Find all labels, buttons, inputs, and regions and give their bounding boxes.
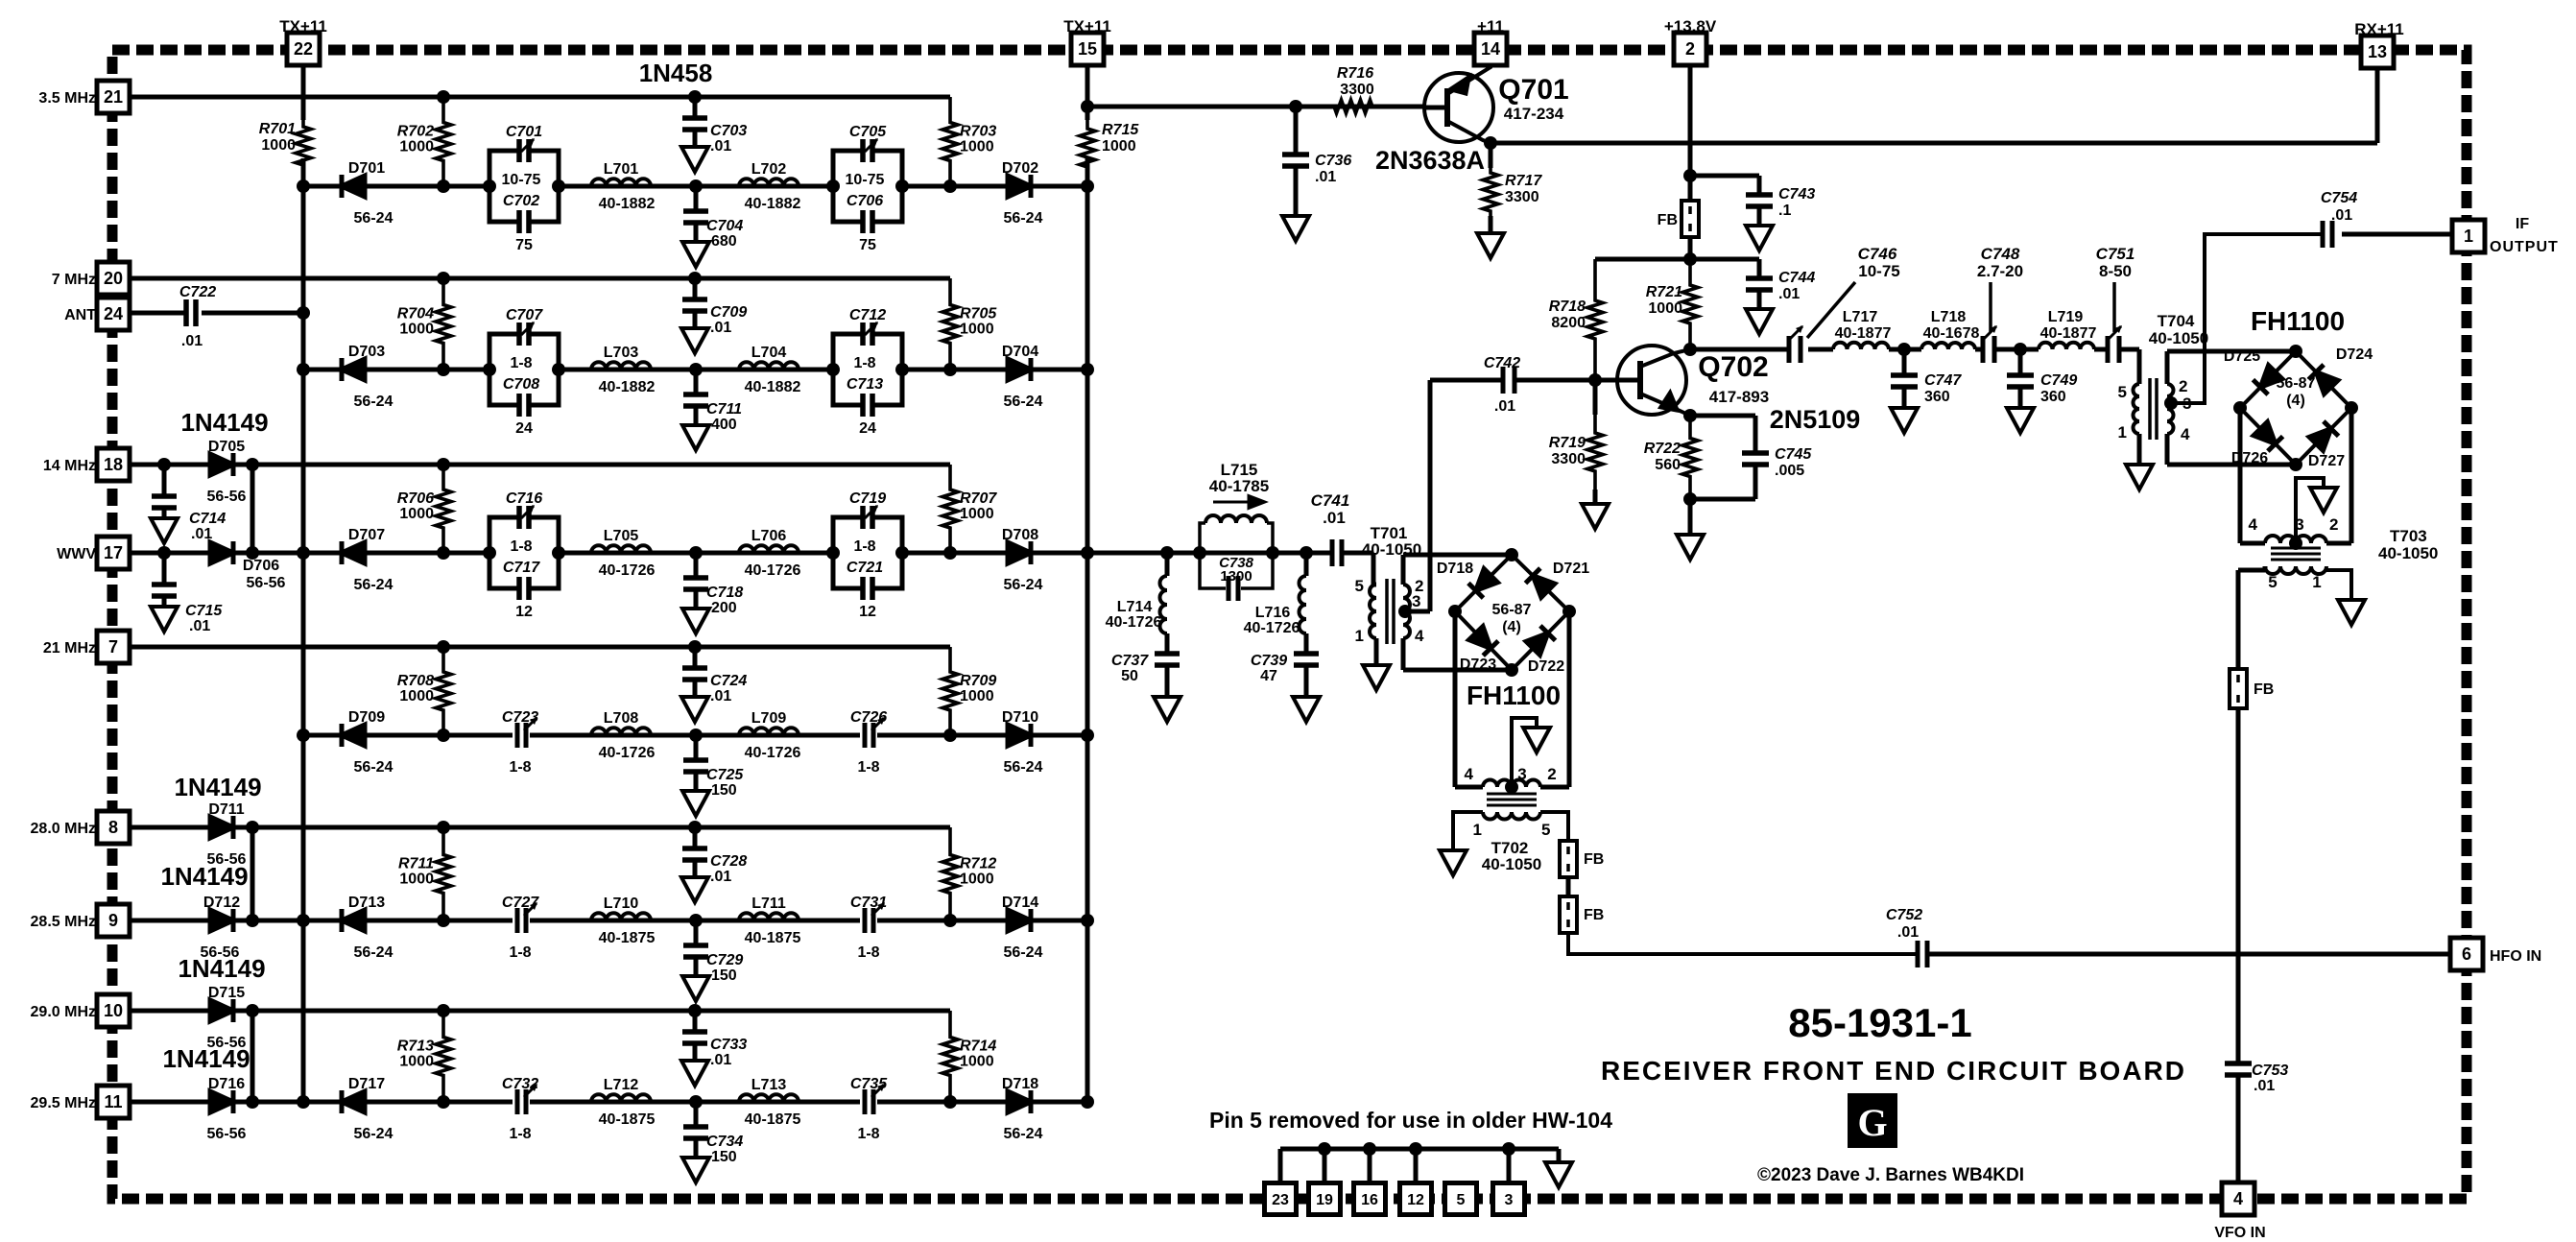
ferrite bead FB (pin2 rail) <box>1658 201 1699 237</box>
diode D713 <box>342 895 394 961</box>
svg-text:56-56: 56-56 <box>207 489 247 505</box>
label Q702 <box>1698 351 1769 406</box>
svg-text:D718: D718 <box>1437 561 1473 577</box>
svg-text:C728: C728 <box>710 853 747 870</box>
svg-text:1-8: 1-8 <box>857 1126 879 1142</box>
diode D717 <box>342 1076 394 1142</box>
svg-text:16: 16 <box>1361 1192 1378 1208</box>
resistor R713 <box>397 1011 451 1102</box>
svg-text:D717: D717 <box>348 1076 385 1092</box>
svg-text:1000: 1000 <box>960 139 994 155</box>
wire VFO riser upper <box>2236 708 2241 954</box>
resistor R716 <box>1324 65 1382 113</box>
pin 11 (29.5 MHz) <box>31 1086 130 1118</box>
svg-text:40-1726: 40-1726 <box>745 562 801 579</box>
node row3 bus2 junction <box>1081 546 1094 560</box>
capacitor C753 <box>2225 954 2288 1094</box>
pin 24 (ANT) <box>64 298 130 330</box>
svg-text:R716: R716 <box>1337 65 1373 82</box>
node bottom bus 16 <box>1363 1142 1376 1156</box>
resistor R715 <box>1080 107 1139 188</box>
svg-text:.01: .01 <box>1897 924 1919 941</box>
capacitor C745 <box>1690 416 1812 499</box>
pin 22 (TX+11) <box>279 17 327 65</box>
diode D718 <box>1002 1076 1043 1142</box>
svg-text:L714: L714 <box>1117 599 1153 615</box>
svg-text:56-24: 56-24 <box>1004 577 1043 593</box>
svg-text:40-1875: 40-1875 <box>599 930 656 946</box>
svg-text:L718: L718 <box>1931 309 1967 325</box>
svg-text:56-24: 56-24 <box>1004 394 1043 410</box>
svg-text:D723: D723 <box>1460 657 1496 673</box>
diode D725 <box>2224 348 2282 394</box>
ground T702 pin3 <box>1523 728 1550 752</box>
svg-text:.01: .01 <box>2254 1078 2275 1094</box>
svg-text:.01: .01 <box>710 869 731 885</box>
svg-text:.01: .01 <box>1778 286 1800 302</box>
svg-text:C704: C704 <box>706 218 743 234</box>
svg-text:40-1882: 40-1882 <box>599 196 656 212</box>
ferrite bead FB (T702 b) <box>1560 896 1604 933</box>
node row2 bus2 junction <box>1081 363 1094 376</box>
wire 28.0MHz input <box>130 825 269 830</box>
diode D724 <box>2308 346 2373 394</box>
label pin5 note <box>1209 1108 1612 1133</box>
wire L719 to C751 <box>2094 347 2108 352</box>
ground below C709 <box>681 328 708 353</box>
svg-text:1-8: 1-8 <box>509 759 531 776</box>
svg-text:G: G <box>1857 1101 1887 1144</box>
capacitor C705/C706 box <box>826 124 909 253</box>
svg-text:C724: C724 <box>710 673 747 689</box>
svg-text:D701: D701 <box>348 160 385 177</box>
pin 23 (bottom) <box>1265 1183 1297 1215</box>
svg-text:40-1882: 40-1882 <box>745 196 801 212</box>
wire ring2 right to T703 <box>2326 408 2351 543</box>
svg-text:T704: T704 <box>2158 312 2195 330</box>
capacitor C743 <box>1690 176 1815 226</box>
diode D721 <box>1525 561 1589 597</box>
wire WWV input <box>130 551 269 556</box>
svg-text:1N4149: 1N4149 <box>178 954 265 983</box>
svg-text:75: 75 <box>515 237 533 253</box>
svg-text:5: 5 <box>1541 821 1550 839</box>
svg-text:1000: 1000 <box>960 688 994 705</box>
wire ANT line <box>130 311 303 316</box>
svg-text:10-75: 10-75 <box>846 172 885 188</box>
svg-text:1000: 1000 <box>960 872 994 888</box>
svg-text:C718: C718 <box>706 585 743 601</box>
svg-text:40-1877: 40-1877 <box>2040 325 2097 342</box>
svg-text:3300: 3300 <box>1340 82 1374 98</box>
svg-text:56-24: 56-24 <box>354 944 394 961</box>
svg-text:+13.8V: +13.8V <box>1664 17 1717 36</box>
svg-text:C713: C713 <box>847 376 883 393</box>
svg-text:1-8: 1-8 <box>509 944 531 961</box>
node bus2-Q701 feed <box>1081 100 1094 113</box>
wire T703 pin5 elbow <box>2263 566 2268 570</box>
svg-text:C706: C706 <box>847 193 883 209</box>
capacitor C727 <box>502 895 539 961</box>
label mixer1 56-87 <box>1492 602 1532 635</box>
node row3 bus1 junction <box>297 546 310 560</box>
svg-text:4: 4 <box>2233 1189 2243 1208</box>
svg-text:FB: FB <box>1658 212 1678 228</box>
ground below T701 <box>1363 665 1390 690</box>
svg-text:3: 3 <box>1517 765 1526 783</box>
pin 15 (TX+11) <box>1063 17 1111 65</box>
inductor L716 <box>1244 553 1306 654</box>
svg-text:C717: C717 <box>503 560 540 576</box>
node row4 bus1 junction <box>297 728 310 742</box>
ground below T704 <box>2126 465 2153 490</box>
capacitor C754 <box>2321 190 2357 248</box>
svg-text:HFO IN: HFO IN <box>2490 948 2541 965</box>
label 1N4149 D712 <box>160 862 248 891</box>
svg-text:R715: R715 <box>1102 122 1139 138</box>
svg-text:L710: L710 <box>604 896 639 912</box>
svg-text:11: 11 <box>104 1092 122 1111</box>
diode D704 <box>1002 344 1043 410</box>
svg-text:C721: C721 <box>847 560 883 576</box>
svg-text:Q702: Q702 <box>1698 351 1768 383</box>
node row2 bus1 junction <box>297 363 310 376</box>
svg-text:L706: L706 <box>751 528 787 544</box>
svg-text:9: 9 <box>108 911 118 930</box>
label 1N4149 D711 <box>174 773 261 801</box>
svg-text:360: 360 <box>2040 389 2066 405</box>
svg-text:WWV: WWV <box>57 546 96 562</box>
node row5 bus2 junction <box>1081 914 1094 927</box>
svg-text:C743: C743 <box>1778 186 1815 203</box>
svg-text:(4): (4) <box>1502 619 1521 635</box>
node row6 R-left top <box>437 1004 450 1017</box>
capacitor C732 <box>502 1076 538 1142</box>
node row5 R-right bottom <box>943 914 957 927</box>
svg-text:D713: D713 <box>348 895 385 911</box>
svg-text:1000: 1000 <box>399 688 434 705</box>
ground below R719 <box>1582 504 1609 529</box>
node row6 bus1 junction <box>297 1095 310 1109</box>
capacitor C729 <box>683 914 743 984</box>
inductor L704 <box>739 345 800 395</box>
label board title <box>1601 1056 2186 1086</box>
ground below C703 <box>681 147 708 172</box>
capacitor C703 <box>682 90 747 155</box>
diode D726 <box>2231 422 2283 466</box>
svg-text:40-1882: 40-1882 <box>599 379 656 395</box>
diode D727 <box>2308 421 2345 469</box>
svg-text:21 MHz: 21 MHz <box>43 640 96 657</box>
svg-text:12: 12 <box>1407 1192 1424 1208</box>
svg-text:680: 680 <box>711 233 737 250</box>
diode D711 <box>207 801 247 868</box>
svg-text:40-1726: 40-1726 <box>1244 620 1300 636</box>
svg-text:24: 24 <box>104 304 123 323</box>
capacitor C719/C721 box <box>826 490 909 620</box>
svg-text:56-56: 56-56 <box>247 575 286 591</box>
ground below C749 <box>2007 408 2034 433</box>
svg-text:3: 3 <box>1412 592 1420 610</box>
svg-text:R713: R713 <box>397 1039 434 1055</box>
capacitor C747 <box>1891 349 1962 408</box>
svg-text:C716: C716 <box>506 490 542 507</box>
node C749 junction <box>2014 343 2027 356</box>
node row1 R-right bottom <box>943 179 957 193</box>
svg-text:5: 5 <box>1457 1192 1466 1208</box>
capacitor C751 <box>2096 245 2135 363</box>
svg-text:14: 14 <box>1481 39 1500 59</box>
diode D716 <box>207 1076 247 1142</box>
node row3 R-right bottom <box>943 546 957 560</box>
svg-text:40-1678: 40-1678 <box>1923 325 1980 342</box>
inductor L708 <box>591 710 655 761</box>
svg-text:.01: .01 <box>2331 207 2352 224</box>
node C747 junction <box>1897 343 1911 356</box>
svg-text:RX+11: RX+11 <box>2354 20 2404 38</box>
node row1 R-left bottom <box>437 179 450 193</box>
svg-text:FH1100: FH1100 <box>1467 681 1561 710</box>
svg-text:R704: R704 <box>397 306 434 322</box>
inductor L718 <box>1921 309 1979 349</box>
svg-text:C733: C733 <box>710 1037 747 1053</box>
diode D723 <box>1460 627 1498 673</box>
svg-text:R707: R707 <box>960 490 997 507</box>
svg-text:1000: 1000 <box>399 506 434 522</box>
svg-text:5: 5 <box>2268 573 2277 591</box>
svg-text:C719: C719 <box>849 490 886 507</box>
svg-text:1000: 1000 <box>960 322 994 338</box>
capacitor C748 <box>1977 245 2023 363</box>
svg-text:2N3638A: 2N3638A <box>1375 146 1485 175</box>
inductor L710 <box>591 896 655 946</box>
svg-text:C732: C732 <box>502 1076 538 1092</box>
svg-text:R721: R721 <box>1646 284 1682 300</box>
svg-text:6: 6 <box>2462 944 2471 964</box>
resistor R721 <box>1646 259 1698 349</box>
svg-text:10-75: 10-75 <box>1858 262 1899 280</box>
diode D714 <box>1002 895 1043 961</box>
svg-text:56-56: 56-56 <box>207 1126 247 1142</box>
diode D701 <box>342 160 394 227</box>
wire C741 to T701 <box>1342 553 1373 585</box>
wire ring1 left to T702 <box>1455 611 1483 787</box>
svg-text:7 MHz: 7 MHz <box>52 272 96 288</box>
svg-text:L704: L704 <box>751 345 787 361</box>
label mixer2 56-87 <box>2277 375 2316 409</box>
svg-text:C745: C745 <box>1775 446 1812 463</box>
svg-text:C752: C752 <box>1886 907 1922 923</box>
svg-text:C729: C729 <box>706 952 743 968</box>
svg-text:C753: C753 <box>2252 1063 2288 1079</box>
capacitor C712/C713 box <box>826 307 909 437</box>
svg-text:D721: D721 <box>1553 561 1589 577</box>
svg-text:.01: .01 <box>1494 398 1515 415</box>
svg-text:4: 4 <box>1465 765 1474 783</box>
pin 17 (WWV) <box>57 537 130 569</box>
capacitor C736 <box>1282 107 1351 216</box>
label FH1100 mixer2 <box>2251 306 2345 336</box>
svg-text:IF: IF <box>2516 216 2529 232</box>
svg-text:D718: D718 <box>1002 1076 1038 1092</box>
wire row2 filter line <box>303 368 1087 372</box>
capacitor C723 <box>502 709 538 776</box>
svg-text:1-8: 1-8 <box>510 538 532 555</box>
svg-text:C744: C744 <box>1778 270 1815 286</box>
svg-text:C754: C754 <box>2321 190 2357 206</box>
node row2 R-left top <box>437 272 450 285</box>
capacitor C752 <box>1886 907 1927 967</box>
svg-text:(4): (4) <box>2286 393 2305 409</box>
resistor R717 <box>1483 143 1542 233</box>
diode D707 <box>342 527 394 593</box>
svg-text:R722: R722 <box>1644 441 1681 457</box>
svg-text:R709: R709 <box>960 673 996 689</box>
svg-text:1000: 1000 <box>261 137 296 154</box>
svg-text:1: 1 <box>2312 573 2321 591</box>
svg-text:D703: D703 <box>348 344 385 360</box>
svg-text:L709: L709 <box>751 710 787 727</box>
svg-text:L703: L703 <box>604 345 639 361</box>
svg-text:FB: FB <box>2254 681 2274 698</box>
svg-text:20: 20 <box>104 269 123 288</box>
svg-text:C708: C708 <box>503 376 539 393</box>
svg-text:.01: .01 <box>189 618 210 634</box>
svg-text:3.5 MHz: 3.5 MHz <box>38 90 96 107</box>
svg-text:C748: C748 <box>1981 245 2020 263</box>
pin 4 (VFO IN) <box>2214 1182 2265 1241</box>
svg-text:D722: D722 <box>1528 658 1564 675</box>
svg-text:C747: C747 <box>1924 372 1962 389</box>
wire T704 sec top to ring2 <box>2167 351 2296 384</box>
capacitor C725 <box>683 728 744 799</box>
svg-text:4: 4 <box>1415 627 1424 645</box>
svg-text:56-87: 56-87 <box>1492 602 1532 618</box>
svg-text:D706: D706 <box>243 558 279 574</box>
svg-text:R717: R717 <box>1505 173 1542 189</box>
node D705 junction <box>246 458 259 471</box>
wire Q701 to pin 13 <box>1491 67 2377 143</box>
svg-text:28.5 MHz: 28.5 MHz <box>31 914 96 930</box>
node Q702 base <box>1588 373 1602 387</box>
wire T701 sec top to ring <box>1403 555 1512 585</box>
svg-text:C711: C711 <box>706 401 742 418</box>
svg-text:1N4149: 1N4149 <box>174 773 261 801</box>
svg-text:56-24: 56-24 <box>1004 944 1043 961</box>
node row6 R-right bottom <box>943 1095 957 1109</box>
svg-text:C737: C737 <box>1111 653 1149 669</box>
resistor R714 <box>942 1011 996 1102</box>
wire D706 tie <box>250 465 255 553</box>
node +13.8V dist <box>1683 252 1697 266</box>
diode D718 <box>1437 561 1497 598</box>
resistor R709 <box>942 647 996 735</box>
capacitor C716/C717 box <box>483 490 565 620</box>
svg-text:1000: 1000 <box>960 506 994 522</box>
svg-text:1: 1 <box>2464 227 2473 246</box>
node row2 R-left bottom <box>437 363 450 376</box>
wire FB to T703 <box>2238 570 2265 669</box>
ground T702 pin1 <box>1440 850 1467 875</box>
svg-text:R719: R719 <box>1549 435 1586 451</box>
transformer T701 <box>1355 524 1424 645</box>
inductor L714 <box>1106 553 1167 654</box>
svg-text:21: 21 <box>104 87 123 107</box>
wire bus from pin 15 <box>1085 65 1090 1102</box>
svg-text:40-1875: 40-1875 <box>745 1111 801 1128</box>
node C743 junction <box>1683 169 1697 182</box>
label 2N3638A <box>1375 146 1485 175</box>
svg-text:OUTPUT: OUTPUT <box>2490 239 2559 255</box>
svg-text:150: 150 <box>711 782 737 799</box>
svg-text:29.5 MHz: 29.5 MHz <box>31 1095 96 1111</box>
svg-text:L716: L716 <box>1255 605 1291 621</box>
pin 16 (bottom) <box>1354 1183 1386 1215</box>
svg-text:56-24: 56-24 <box>1004 210 1043 227</box>
wire TX+11 bus from pin 22 <box>301 65 306 1102</box>
ground below C704 <box>682 242 709 267</box>
svg-text:C734: C734 <box>706 1134 743 1150</box>
inductor L703 <box>591 345 655 395</box>
capacitor C733 <box>682 1004 747 1068</box>
svg-text:12: 12 <box>515 604 533 620</box>
ground below C724 <box>681 697 708 722</box>
ground below C737 <box>1154 697 1181 722</box>
svg-text:.01: .01 <box>181 333 203 349</box>
wire T701 sec bottom to ring <box>1403 638 1512 670</box>
svg-text:56-24: 56-24 <box>354 759 394 776</box>
svg-text:8-50: 8-50 <box>2099 262 2132 280</box>
svg-text:1-8: 1-8 <box>510 355 532 371</box>
node L716 junction <box>1300 546 1313 560</box>
node row6 bus2 junction <box>1081 1095 1094 1109</box>
node row1 R-left top <box>437 90 450 104</box>
node T703 pin3 <box>2289 537 2302 550</box>
svg-text:5: 5 <box>1355 577 1364 595</box>
wire D712 tie <box>250 827 255 920</box>
svg-text:D716: D716 <box>208 1076 245 1092</box>
capacitor C715 <box>152 553 223 634</box>
svg-text:.01: .01 <box>1323 509 1346 527</box>
svg-text:.005: .005 <box>1775 463 1804 479</box>
pin 10 (29.0 MHz) <box>31 994 130 1027</box>
svg-text:Q701: Q701 <box>1498 74 1568 106</box>
wire L718 to C748 <box>1975 347 1983 352</box>
node C714 junction <box>157 458 171 471</box>
node row4 R-left top <box>437 640 450 654</box>
svg-text:1000: 1000 <box>1648 300 1682 317</box>
ground below C714 <box>151 518 178 543</box>
ferrite bead FB (T702 a) <box>1560 841 1604 877</box>
wire row3 top line <box>129 463 950 467</box>
svg-text:©2023 Dave J. Barnes WB4KDI: ©2023 Dave J. Barnes WB4KDI <box>1757 1165 2024 1185</box>
resistor R703 <box>942 97 996 186</box>
svg-text:1N4149: 1N4149 <box>160 862 248 891</box>
svg-text:560: 560 <box>1655 457 1681 473</box>
resistor R705 <box>942 278 997 370</box>
svg-text:C749: C749 <box>2040 372 2077 389</box>
pin 3 (bottom) <box>1493 1183 1525 1215</box>
svg-text:1-8: 1-8 <box>509 1126 531 1142</box>
node T701 pin3 tap <box>1398 605 1412 618</box>
node D711 junction <box>246 821 259 834</box>
svg-text:C702: C702 <box>503 193 539 209</box>
capacitor C726 <box>850 709 887 776</box>
pin 14 (+11) <box>1474 17 1507 65</box>
node Q702 collector <box>1683 343 1697 356</box>
svg-text:40-1726: 40-1726 <box>599 745 656 761</box>
svg-text:56-24: 56-24 <box>354 394 394 410</box>
